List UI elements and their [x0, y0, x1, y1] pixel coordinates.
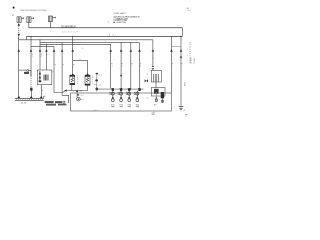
drop wire x72.7	[72, 36, 74, 74]
bus C (y40.0)	[19, 39, 153, 41]
fuse F1 inner bars	[18, 17, 19, 23]
title bullet	[13, 7, 15, 9]
svg-text:#10: #10	[80, 95, 83, 97]
branch y60.4 to injector 2	[73, 60, 88, 74]
bus D (y42.7)	[40, 42, 140, 44]
wire to ECU pin	[76, 92, 78, 97]
link arrow up below F1	[18, 23, 20, 26]
right edge wire bus A to bus B at x182.4	[181, 28, 183, 37]
svg-text:#20: #20	[79, 91, 82, 93]
fuse F3 inner bars	[50, 16, 51, 22]
svg-text:E01: E01	[80, 99, 83, 101]
joint wire circle to x31	[29, 71, 31, 76]
bus E (y44.3)	[40, 43, 111, 45]
tick x171.4 y64	[171, 63, 173, 65]
dashed line right of injector I2	[91, 76, 93, 85]
strip arrow x41.3	[40, 96, 43, 99]
fuse F3 right tick	[52, 17, 55, 19]
check connector box	[152, 70, 162, 82]
arrow x110.7	[109, 49, 112, 51]
bus B (y36.4)	[27, 35, 183, 37]
injector common wire	[65, 90, 88, 92]
drop wire x31	[30, 36, 32, 76]
pin column 4 arrow	[136, 96, 138, 98]
svg-text:E10: E10	[111, 104, 114, 106]
legend line 5 bullet	[113, 22, 114, 23]
node dot bus B x72.7	[72, 36, 73, 37]
svg-text:Rsp: Rsp	[99, 74, 102, 76]
left arrow on common wire	[64, 89, 66, 91]
ECU pin 10 upper mark	[78, 94, 80, 95]
fuse F1 right tick	[21, 17, 23, 19]
ECU pin 10 dot	[78, 98, 79, 99]
right drop x171.4	[170, 36, 172, 93]
bus B left corner drop	[26, 36, 28, 39]
dashes x152.9 y57	[152, 57, 154, 60]
top node blob x96.8	[96, 73, 98, 75]
wire fuse F3 down to bus A	[49, 22, 51, 28]
drop wire x46.5	[46, 44, 48, 70]
arrow x46.5	[45, 49, 48, 51]
injector I1 bottom wire	[71, 85, 73, 91]
strip arrow x31.3	[30, 96, 33, 99]
tick x181 y64	[181, 63, 183, 65]
svg-text:CONN: CONN	[194, 58, 196, 64]
wire tick beside relay	[52, 71, 54, 73]
arrow x121.1	[120, 49, 123, 51]
sensor column x96.8 wire	[96, 74, 98, 91]
svg-text:E20: E20	[120, 104, 123, 106]
pin column 4 wire	[137, 88, 139, 99]
svg-text:J/C 24: J/C 24	[21, 103, 28, 105]
pin column 3 wire	[129, 88, 131, 99]
pin column 4 ring	[136, 92, 139, 95]
paired connector arrows above box	[152, 65, 154, 70]
arrow x31	[30, 49, 33, 51]
fuse F2 right tick	[31, 17, 34, 19]
arrow into injector I2	[86, 73, 88, 75]
bus A (y27.7)	[29, 27, 183, 29]
fuse F2 body	[27, 17, 31, 23]
small ring on ground wire	[180, 56, 182, 58]
pin column 2 ring	[120, 92, 123, 95]
arrow x130.8	[130, 49, 133, 51]
arrow x171.4	[170, 49, 173, 51]
injector name block 1	[45, 101, 54, 103]
injector I2 top cap	[85, 75, 90, 77]
injector label dots	[49, 98, 52, 101]
arrow x54	[53, 49, 56, 51]
below-box label marks	[152, 112, 155, 115]
pin column 1 tick	[111, 87, 113, 89]
shield bracket line over pin group	[96, 88, 144, 90]
svg-text:3: 3	[112, 66, 113, 68]
bus F stub (y46.6)	[31, 46, 54, 48]
bus bar strip 1	[15, 98, 44, 100]
pin column 1 pin ring	[111, 99, 114, 102]
box2 pin wire	[161, 98, 163, 102]
check connector box 2	[152, 88, 166, 97]
pin column 3 blob	[128, 88, 130, 91]
fuse F2 inner bars	[28, 17, 29, 23]
relay coil base	[39, 80, 42, 82]
connector blob x121.1 y75	[120, 74, 122, 76]
injector I2 bottom cap	[85, 84, 90, 86]
node dot bus E x46.5	[46, 44, 47, 45]
relay contact block stripes	[45, 75, 48, 81]
sensor blob 2	[96, 88, 99, 91]
svg-text:4: 4	[122, 66, 123, 68]
pin column 3 arrow	[128, 96, 130, 98]
down arrow to ECU pin	[76, 90, 78, 92]
ground wire bars	[179, 107, 184, 110]
drop wire x62.1	[61, 43, 63, 96]
tick x121.1 y64	[121, 63, 123, 65]
svg-text:(S): (S)	[81, 48, 84, 50]
sensor tick label	[94, 83, 97, 85]
pin column 2 tick	[119, 87, 121, 89]
svg-text:= JUNCTION: = JUNCTION	[116, 22, 127, 24]
connector blob x31	[30, 88, 32, 91]
box2 stack2 arrow	[155, 97, 157, 99]
node dot bus C x72.7	[72, 39, 73, 40]
wire x31 to strip	[30, 91, 32, 96]
svg-text:1994 CELICA (EFI SYSTEM): 1994 CELICA (EFI SYSTEM)	[20, 9, 47, 12]
pin column 3 ring	[128, 92, 131, 95]
svg-text:E9: E9	[154, 105, 156, 107]
node dot bus D x62.1	[62, 42, 63, 43]
right branch tie y46.6	[171, 46, 181, 48]
relay coil bar	[39, 71, 41, 82]
pin column 1 wire	[112, 88, 114, 99]
pin column 2 pin ring	[120, 99, 123, 102]
arrow x72.7	[71, 49, 74, 51]
tick x130.8 y64	[131, 63, 133, 65]
link arrow down to bus C	[18, 34, 20, 37]
svg-text:2: 2	[73, 66, 74, 68]
strip 1 right hook	[44, 96, 46, 98]
box2 stack 2	[161, 92, 164, 98]
drop wire x130.8	[130, 43, 132, 89]
ground sub mark	[185, 113, 187, 116]
check connector stripes	[154, 74, 159, 82]
box2 dark stack 1	[154, 89, 159, 94]
sensor blob 1	[95, 79, 98, 81]
joint connector circle	[27, 70, 29, 72]
arrow x152.9	[152, 49, 155, 51]
svg-text:6: 6	[140, 66, 141, 68]
ECU box	[71, 93, 172, 111]
injector I2 body	[85, 75, 90, 85]
injector I1 body	[70, 75, 75, 85]
arrow x18.7	[17, 49, 20, 51]
arrow x181	[180, 49, 183, 51]
injector name block 2	[55, 101, 62, 103]
injector I1 coil	[71, 77, 73, 82]
svg-text:CODE : SEE P.: CODE : SEE P.	[113, 13, 126, 15]
drop wire x121.1	[120, 43, 122, 89]
pin column 1 arrow	[112, 96, 114, 98]
fuse F3 body	[48, 16, 52, 22]
staircase wire from x54 joining injector common wire	[54, 91, 65, 93]
tick x54 y65	[54, 64, 56, 66]
bus C corner down x152.9	[152, 40, 154, 65]
relay coil arrow lower	[39, 76, 41, 79]
svg-text:B-W B-W B-W: B-W B-W B-W	[62, 31, 78, 33]
svg-text:22: 22	[146, 98, 148, 100]
relay exit tick	[41, 89, 43, 91]
arrow into injector I1	[72, 73, 74, 75]
check connector pin column x156	[155, 92, 157, 102]
svg-text:E30: E30	[128, 104, 131, 106]
injector label row2 block 1	[46, 104, 56, 106]
fuse F1 body	[17, 17, 21, 23]
bus E corner down x110.7	[110, 44, 112, 88]
tick x139.5 y64	[140, 63, 142, 65]
wire x31 lower dashed	[30, 76, 32, 88]
pin column 3 pin ring	[128, 99, 131, 102]
joint dark label	[24, 72, 29, 74]
node dot bus D x130.8	[130, 42, 131, 43]
relay bottom exit wire	[40, 85, 42, 97]
tick x62.1 y65	[62, 64, 64, 66]
strip 1 hatches	[16, 98, 44, 100]
svg-text:21: 21	[146, 74, 148, 76]
box1 to box2 link wire	[155, 82, 157, 88]
bus D corner down x139.5	[139, 43, 141, 89]
tick x110.7 y64	[111, 63, 113, 65]
node dot bus B x31	[31, 36, 32, 37]
corner bus F down x54	[53, 47, 55, 93]
legend left dots	[107, 20, 110, 23]
svg-text:#10: #10	[78, 59, 81, 61]
pin column 4 blob	[138, 88, 140, 91]
injector label row2 block 2	[58, 104, 67, 106]
injector I2 coil	[87, 77, 89, 82]
dashed link wire	[18, 26, 20, 34]
injector name circle	[63, 101, 65, 103]
pin column 2 arrow	[120, 96, 122, 98]
node dot bus D x121	[121, 42, 122, 43]
dashed ref line x190	[189, 42, 191, 64]
joint wire x18.7 to connector	[19, 69, 27, 71]
svg-text:(S): (S)	[99, 84, 102, 86]
pin column 2 wire	[120, 88, 122, 99]
wire fuse F2 down to bus A	[28, 22, 30, 27]
arrow x139.5	[138, 49, 141, 51]
svg-text:CHECK: CHECK	[191, 56, 193, 64]
svg-text:5: 5	[131, 66, 132, 68]
dashed pair line between injectors	[77, 76, 79, 85]
pin column 1 ring	[111, 92, 114, 95]
injector I1 top cap	[70, 75, 75, 77]
strip arrow x18.8	[17, 96, 20, 99]
tick x72.7 y64.5	[73, 64, 75, 66]
injector I2 bottom wire	[87, 85, 89, 90]
drop wire x18.7	[18, 36, 20, 96]
noise filter bowtie	[145, 79, 148, 82]
staircase wire from x62.1 down to junction labels	[62, 95, 68, 103]
injector I1 bottom cap	[70, 83, 75, 85]
right drop x181 to ground	[180, 36, 182, 105]
box2 pin ring	[161, 100, 163, 102]
relay contact block	[44, 75, 49, 81]
svg-text:E40: E40	[136, 104, 139, 106]
ECU pin 10 ring	[77, 97, 81, 101]
node dot bus C x40	[40, 39, 41, 40]
relay coil arrow upper	[39, 72, 41, 75]
pin column 4 pin ring	[136, 99, 139, 102]
svg-text:W-B: W-B	[185, 81, 187, 86]
relay box K1	[37, 70, 51, 85]
arrow x62.1	[61, 49, 64, 51]
pin column 1 blob	[112, 88, 114, 91]
svg-text:E6 E7: E6 E7	[94, 110, 99, 112]
junction blob ground feed	[180, 36, 181, 37]
pin column 3 tick	[127, 87, 129, 89]
box2 stack2 pin ring	[155, 99, 157, 101]
pin column 2 blob	[120, 88, 122, 91]
arrow x40	[39, 49, 42, 51]
drop wire x40	[39, 40, 41, 70]
